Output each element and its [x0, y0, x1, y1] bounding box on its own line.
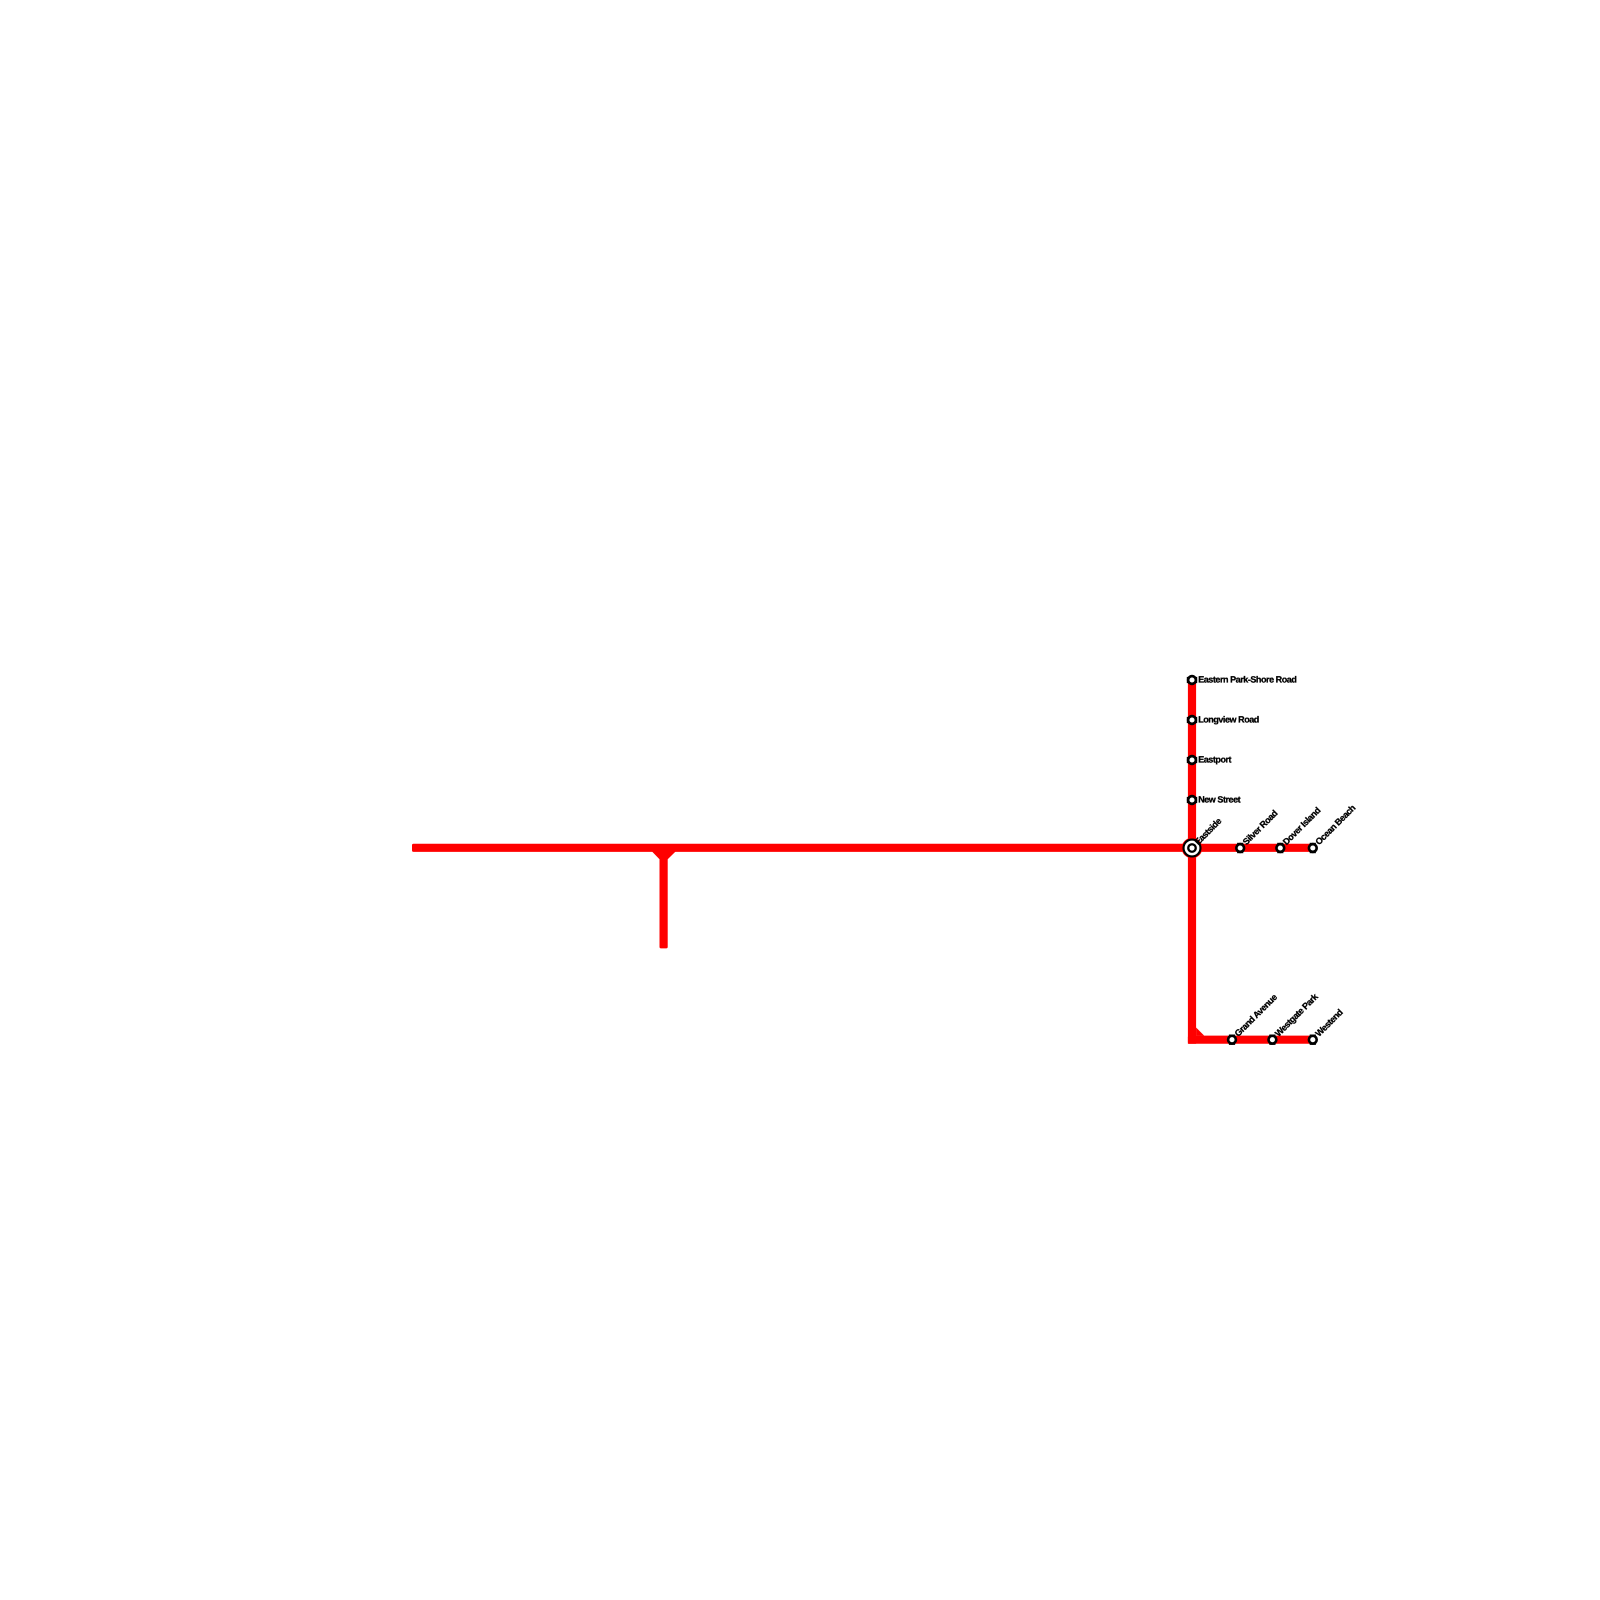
svg-text:Longview Road: Longview Road [1198, 715, 1259, 725]
svg-text:Eastern Park-Shore Road: Eastern Park-Shore Road [1198, 675, 1296, 685]
svg-text:Eastport: Eastport [1198, 755, 1231, 765]
svg-text:New Street: New Street [1198, 795, 1240, 805]
